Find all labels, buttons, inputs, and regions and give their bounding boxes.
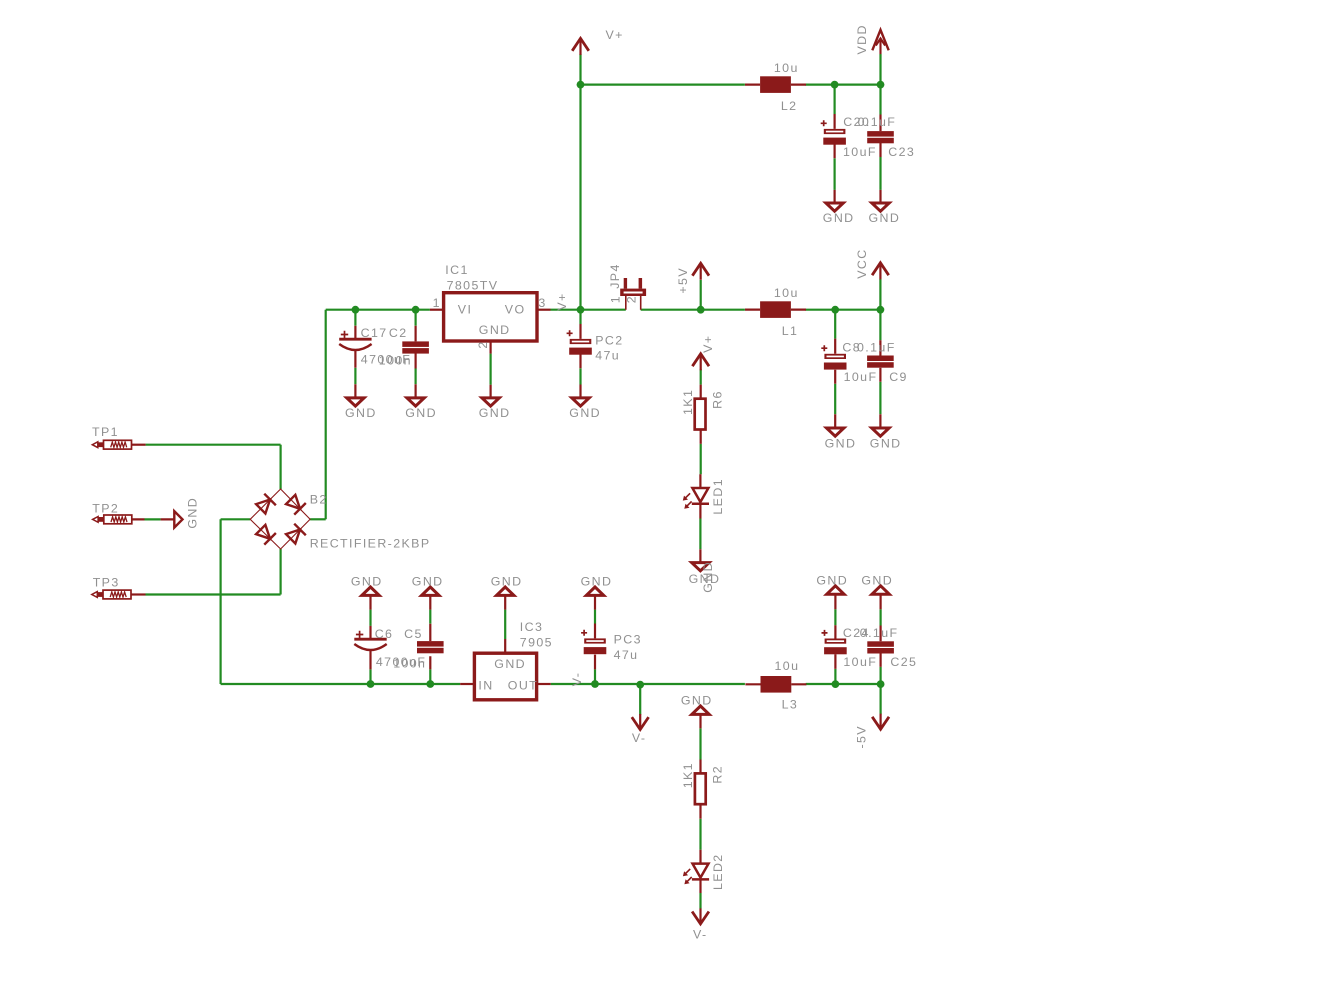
supply arrow V- bottom	[692, 908, 709, 941]
capacitor C20 10uF	[821, 115, 877, 159]
ground under IC1	[479, 398, 511, 420]
ground under C20	[823, 203, 855, 225]
ground under C8	[825, 428, 857, 451]
wire VCC stub	[879, 279, 881, 310]
supply arrow V+ above R6	[692, 335, 714, 371]
supply arrow -5V	[855, 714, 889, 749]
svg-text:GND: GND	[569, 406, 601, 420]
svg-text:1K1: 1K1	[681, 762, 695, 788]
resistor R6 1K1	[681, 389, 725, 430]
wire JP4 to L1	[641, 309, 745, 311]
wire C23 bottom	[879, 157, 881, 190]
node C5 junction	[426, 680, 434, 688]
wire pin C9	[879, 340, 881, 428]
wire input rail to IC1	[326, 309, 430, 311]
svg-text:LED1: LED1	[711, 478, 725, 515]
svg-text:PC2: PC2	[595, 334, 623, 348]
ground above PC3	[581, 575, 613, 596]
ground at TP2	[174, 497, 199, 529]
svg-text:L3: L3	[782, 697, 799, 711]
svg-text:C5: C5	[404, 627, 423, 641]
jumper JP4	[608, 263, 646, 309]
svg-text:2: 2	[476, 340, 490, 348]
node VCC junction	[877, 306, 885, 314]
wire pin IC1-2	[490, 341, 492, 398]
wire pin IC3-IN	[460, 683, 474, 685]
svg-text:GND: GND	[581, 575, 613, 589]
capacitor C23 0.1uF	[858, 115, 916, 159]
ground above C24	[816, 573, 848, 594]
svg-text:C6: C6	[375, 627, 394, 641]
svg-text:IC3: IC3	[520, 620, 543, 634]
ground under C17	[345, 398, 377, 420]
svg-text:RECTIFIER-2KBP: RECTIFIER-2KBP	[310, 537, 431, 551]
wire L2 to VDD rail	[806, 83, 881, 85]
svg-text:GND: GND	[494, 657, 526, 671]
wire C24 bottom	[834, 669, 836, 684]
bridge rectifier B2 RECTIFIER-2KBP	[250, 489, 430, 551]
svg-text:R2: R2	[710, 765, 724, 784]
svg-text:LED2: LED2	[711, 853, 725, 890]
svg-text:GND: GND	[479, 323, 511, 337]
wire C8 bottom	[834, 384, 836, 414]
IC1 7805TV regulator	[433, 263, 547, 349]
capacitor C5 100n	[393, 627, 443, 671]
wire PC3 bottom	[594, 669, 596, 684]
wire pin C25	[879, 594, 881, 667]
svg-text:TP2: TP2	[92, 502, 119, 516]
svg-text:TP1: TP1	[92, 425, 119, 439]
svg-text:47u: 47u	[595, 348, 620, 362]
svg-text:100n: 100n	[393, 656, 426, 670]
svg-text:1K1: 1K1	[681, 389, 695, 415]
wire C6 bottom	[369, 669, 371, 684]
wire C2 bottom	[415, 369, 417, 385]
ground under C23	[869, 203, 901, 225]
svg-text:JP4: JP4	[608, 263, 622, 289]
svg-text:GND: GND	[870, 437, 902, 451]
node C2 junction	[412, 306, 420, 314]
svg-text:10u: 10u	[774, 61, 799, 75]
test point TP2	[92, 502, 132, 524]
svg-text:7905: 7905	[520, 635, 553, 649]
wire IC1 gnd pin	[490, 354, 492, 385]
capacitor C6 4700uF	[354, 627, 426, 669]
capacitor C9 0.1uF	[857, 341, 908, 385]
wire pin C20	[833, 114, 835, 203]
node C20 junction	[831, 81, 839, 89]
wire C6 top	[369, 610, 371, 626]
wire pin C8	[834, 339, 836, 428]
svg-text:GND: GND	[345, 406, 377, 420]
wire C5 bottom	[429, 669, 431, 684]
svg-text:V+: V+	[701, 335, 715, 353]
ground above C5	[412, 575, 444, 596]
wire +5V stub	[700, 280, 702, 310]
diode D-LR of B2	[285, 524, 306, 545]
wire C5 top	[429, 610, 431, 624]
svg-text:47u: 47u	[614, 648, 639, 662]
inductor L2 10u	[745, 61, 806, 113]
svg-text:3: 3	[538, 296, 546, 310]
svg-text:VCC: VCC	[855, 248, 869, 278]
wire C25 bottom	[879, 667, 881, 684]
svg-text:GND: GND	[405, 406, 437, 420]
svg-text:GND: GND	[869, 211, 901, 225]
node C6 junction	[367, 680, 375, 688]
wire pin IC1-1	[430, 309, 444, 311]
svg-text:IC1: IC1	[445, 263, 468, 277]
svg-text:1: 1	[608, 295, 622, 303]
wire TP3	[146, 593, 281, 595]
wire TP1	[146, 444, 281, 446]
svg-text:GND: GND	[861, 573, 893, 587]
wire C9 bottom	[879, 382, 881, 414]
wire pin IC3-GND	[504, 595, 506, 653]
wire bridge+ vertical	[325, 310, 327, 520]
capacitor C17 4700uF	[339, 326, 411, 366]
node +5V junction	[697, 306, 705, 314]
wire IC3 out to L3	[551, 683, 745, 685]
svg-text:C25: C25	[890, 655, 917, 669]
wire pin LED2	[699, 850, 701, 893]
svg-text:V-: V-	[693, 927, 708, 941]
ground above C25	[861, 573, 893, 594]
svg-text:TP3: TP3	[93, 576, 120, 590]
svg-text:GND: GND	[823, 211, 855, 225]
node C24 junction	[832, 680, 840, 688]
supply arrow V+ top	[572, 28, 624, 55]
wire TP1 to bridge	[280, 445, 282, 489]
node V- junction	[636, 681, 644, 689]
svg-text:C9: C9	[889, 370, 908, 384]
svg-text:0.1uF: 0.1uF	[857, 341, 896, 355]
capacitor PC3 47u	[581, 630, 642, 662]
wire C17 bottom	[354, 368, 356, 384]
ground under C2	[405, 398, 437, 420]
svg-text:10uF: 10uF	[843, 655, 877, 669]
wire LED2 to V-	[699, 893, 701, 909]
IC3 7905 regulator	[474, 620, 553, 700]
svg-text:C2: C2	[389, 326, 408, 340]
wire pin C17	[354, 326, 356, 398]
wire bridge plus	[310, 518, 326, 520]
svg-text:10uF: 10uF	[844, 370, 878, 384]
svg-text:VO: VO	[505, 303, 526, 317]
ground under C9	[870, 428, 902, 451]
resistor R2 1K1	[681, 762, 725, 804]
inductor L3 10u	[745, 659, 806, 711]
wire pin R6	[700, 385, 702, 444]
wire L3 to -5V rail	[806, 683, 881, 685]
wire pin TP1	[132, 444, 146, 446]
wire pin TP3	[131, 593, 146, 595]
svg-text:PC3: PC3	[614, 632, 642, 646]
wire VDD stub	[879, 54, 881, 85]
wire C17 top	[354, 310, 356, 326]
wire V- stub	[639, 685, 641, 715]
svg-text:10uF: 10uF	[843, 145, 877, 159]
wire TP2	[145, 518, 161, 520]
svg-text:0.1uF: 0.1uF	[858, 115, 897, 129]
wire pin IC1-3	[537, 309, 551, 311]
diode D-UR of B2	[285, 494, 306, 515]
wire IC1 out to JP4	[551, 309, 626, 311]
capacitor PC2 47u	[567, 330, 624, 362]
test point TP1	[92, 425, 132, 449]
supply arrow +5V	[676, 263, 709, 293]
wire bridge minus	[221, 518, 251, 520]
svg-text:V+: V+	[606, 28, 624, 42]
svg-text:-5V: -5V	[855, 725, 869, 748]
diode D-UL of B2	[255, 494, 276, 515]
LED LED2	[683, 853, 725, 890]
wire pin C6	[369, 595, 371, 669]
svg-text:GND: GND	[479, 406, 511, 420]
wire pin LED1	[699, 474, 701, 562]
svg-text:V-: V-	[570, 672, 584, 687]
ground under PC2	[569, 398, 601, 420]
wire pin C23	[879, 115, 881, 204]
wire C8 top	[834, 310, 836, 339]
svg-text:L1: L1	[782, 324, 799, 338]
svg-text:OUT: OUT	[508, 679, 538, 693]
svg-text:VDD: VDD	[855, 24, 869, 54]
svg-text:L2: L2	[781, 99, 798, 113]
wire PC2 top	[579, 310, 581, 324]
wire pin PC3	[594, 595, 596, 669]
capacitor C25 0.1uF	[860, 626, 918, 669]
wire bridge to TP3	[280, 549, 282, 595]
wire C20 bottom	[833, 158, 835, 190]
diode D-LL of B2	[255, 524, 276, 545]
wire pin R2 gnd	[699, 714, 701, 818]
svg-text:GND: GND	[351, 575, 383, 589]
svg-text:GND: GND	[491, 575, 523, 589]
inductor L1 10u	[745, 286, 806, 338]
svg-text:R6: R6	[710, 390, 724, 409]
svg-text:V+: V+	[555, 292, 569, 310]
supply arrow VCC	[855, 248, 889, 279]
wire V+ to L2	[581, 83, 745, 85]
wire minus rail to IC3	[221, 683, 461, 685]
ground under LED1	[689, 561, 721, 593]
svg-text:VI: VI	[458, 303, 473, 317]
test point TP3	[92, 576, 131, 599]
node VDD junction	[877, 81, 885, 89]
wire C24 top	[834, 609, 836, 625]
svg-text:C17: C17	[361, 326, 388, 340]
wire R2 to LED2	[699, 819, 701, 850]
capacitor C2 100n	[379, 326, 429, 367]
node C17 junction	[352, 306, 360, 314]
svg-text:2: 2	[624, 295, 638, 303]
wire LED1 to GND	[699, 519, 701, 550]
LED LED1	[683, 478, 725, 515]
wire L1 to VCC rail	[806, 309, 881, 311]
ground above C6	[351, 575, 383, 596]
wire IC3 gnd	[504, 610, 506, 639]
wire C25 top	[879, 609, 881, 625]
node PC2 junction	[577, 306, 585, 314]
wire C23 top	[879, 85, 881, 115]
wire -5V stub	[879, 684, 881, 714]
wire V+ vertical rail	[579, 54, 581, 310]
wire GND to R2	[699, 728, 701, 759]
wire pin C5	[429, 595, 431, 669]
svg-text:GND: GND	[825, 437, 857, 451]
svg-text:1: 1	[433, 296, 441, 310]
wire R6 top	[700, 369, 702, 384]
wire pin PC2	[579, 324, 581, 398]
supply arrow V- mid	[632, 714, 649, 745]
wire PC3 top	[594, 610, 596, 624]
wire pin IC3-OUT	[537, 683, 551, 685]
svg-text:B2: B2	[310, 492, 328, 506]
svg-text:GND: GND	[412, 575, 444, 589]
wire pin C2	[415, 326, 417, 398]
node V+ junction	[577, 81, 585, 89]
svg-text:GND: GND	[816, 573, 848, 587]
ground above R2	[681, 694, 713, 715]
svg-text:7805TV: 7805TV	[447, 278, 499, 292]
svg-text:10u: 10u	[775, 659, 800, 673]
svg-text:+5V: +5V	[676, 267, 690, 294]
svg-text:0.1uF: 0.1uF	[860, 626, 899, 640]
svg-text:GND: GND	[681, 694, 713, 708]
wire C9 top	[879, 310, 881, 341]
node C8 junction	[831, 306, 839, 314]
wire minus vertical	[220, 519, 222, 684]
wire C20 top	[833, 85, 835, 114]
capacitor C24 10uF	[822, 626, 878, 669]
wire R6 to LED1	[700, 444, 702, 474]
ground above IC3	[491, 575, 523, 596]
supply arrow VDD	[855, 24, 889, 54]
svg-text:GND: GND	[185, 497, 199, 529]
svg-text:IN: IN	[478, 679, 493, 693]
svg-text:100n: 100n	[379, 354, 412, 368]
wire C2 top	[415, 310, 417, 326]
wire pin C24	[834, 594, 836, 669]
node C25 junction	[877, 680, 885, 688]
svg-text:GND: GND	[701, 561, 715, 593]
node PC3 junction	[591, 680, 599, 688]
wire pin TP2	[132, 518, 175, 520]
wire PC2 bottom	[579, 368, 581, 384]
svg-text:C23: C23	[888, 145, 915, 159]
capacitor C8 10uF	[821, 341, 877, 385]
svg-text:V-: V-	[632, 731, 647, 745]
svg-text:10u: 10u	[774, 286, 799, 300]
